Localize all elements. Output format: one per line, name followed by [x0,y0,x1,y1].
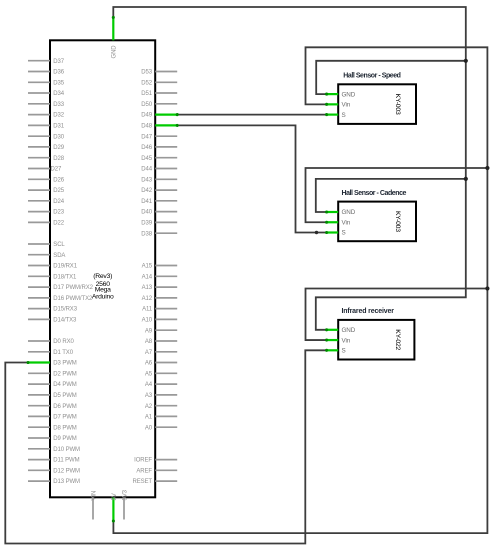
svg-text:KY-022: KY-022 [394,329,401,350]
junction 5V / cadence branch [485,166,489,170]
pin D49 (right) [141,113,177,119]
svg-text:D3 PWM: D3 PWM [53,361,77,367]
pin SDA (left) [28,253,65,259]
svg-text:D41: D41 [141,199,152,205]
svg-text:D14/TX3: D14/TX3 [53,318,77,324]
svg-text:D29: D29 [53,145,64,151]
svg-text:D46: D46 [141,145,152,151]
svg-text:Arduino: Arduino [92,294,114,301]
pin A1 (right) [145,415,177,421]
junction GND / speed branch [464,59,468,63]
pin D23 (left) [28,210,65,216]
bendpoint on D48 wire [315,231,318,234]
pin D33 (left) [28,102,65,108]
pin D30 (left) [28,134,65,140]
svg-text:3V3: 3V3 [122,489,128,500]
label KY-003 part number [394,94,401,115]
svg-text:SCL: SCL [53,242,65,248]
svg-text:VIN: VIN [91,491,97,501]
pin A0 (right) [145,425,177,431]
pin 3V3 (bottom) [122,489,128,519]
pin D47 (right) [141,134,177,140]
module Infrared receiver (KY-022) body [338,320,414,360]
svg-text:D51: D51 [141,91,152,97]
pin A4 (right) [145,382,177,388]
svg-text:S: S [342,112,346,119]
svg-text:D17 PWM/RX2: D17 PWM/RX2 [53,285,93,291]
svg-text:D42: D42 [141,188,152,194]
svg-text:D8 PWM: D8 PWM [53,425,77,431]
pin GND of Infrared receiver [325,327,356,334]
svg-text:D0 RX0: D0 RX0 [53,339,74,345]
pin D14/TX3 (left) [28,318,77,324]
svg-text:GND: GND [342,91,356,98]
wire 5V branch to Hall Sensor Cadence Vin [306,168,488,222]
svg-text:D7 PWM: D7 PWM [53,415,77,421]
svg-text:IOREF: IOREF [134,458,152,464]
svg-text:D25: D25 [53,188,64,194]
svg-text:Mega: Mega [95,287,111,294]
pin D6 PWM (left) [28,404,77,410]
label KY-003 part number [394,211,401,232]
bendpoint at D3 PWM pin end [26,361,29,364]
svg-text:D32: D32 [53,113,64,119]
pin D42 (right) [141,188,177,194]
svg-text:D1 TX0: D1 TX0 [53,350,73,356]
svg-text:A7: A7 [145,350,153,356]
junction GND / cadence branch [464,177,468,181]
pin D38 (right) [141,231,177,237]
svg-text:Vin: Vin [342,102,351,109]
label Hall Sensor - Cadence title [342,190,407,197]
svg-text:D19/RX1: D19/RX1 [53,264,77,270]
svg-text:D28: D28 [53,156,64,162]
pin A5 (right) [145,371,177,377]
svg-text:RESET: RESET [132,479,152,485]
svg-text:Vin: Vin [342,337,351,344]
pin D17 PWM/RX2 (left) [28,285,94,291]
svg-text:D37: D37 [53,59,64,65]
pin D19/RX1 (left) [28,264,78,270]
pin D1 TX0 (left) [28,350,74,356]
pin D31 (left) [28,124,65,130]
svg-text:GND: GND [342,327,356,334]
pin SCL (left) [28,242,65,248]
pin A13 (right) [142,285,178,291]
pin GND of Hall Sensor - Cadence [325,209,356,216]
svg-text:(Rev3): (Rev3) [93,273,112,280]
pin D51 (right) [141,91,177,97]
svg-text:D53: D53 [141,70,152,76]
pin D2 PWM (left) [28,371,77,377]
pin S of Hall Sensor - Speed [325,112,346,119]
svg-text:A6: A6 [145,361,153,367]
svg-text:D49: D49 [141,113,152,119]
svg-text:A4: A4 [145,382,153,388]
pin D28 (left) [28,156,65,162]
pin D53 (right) [141,70,177,76]
svg-text:D45: D45 [141,156,152,162]
wire D3 PWM to Infrared receiver S (around left and bottom) [5,350,327,543]
pin D0 RX0 (left) [28,339,74,345]
svg-text:D35: D35 [53,80,64,86]
svg-text:A12: A12 [142,296,153,302]
pin D8 PWM (left) [28,425,77,431]
pin GND of Hall Sensor - Speed [325,91,356,98]
svg-text:A9: A9 [145,328,153,334]
pin Vin of Hall Sensor - Speed [325,102,351,109]
pin D13 PWM (left) [28,479,80,485]
pin VIN (bottom) [91,491,97,520]
svg-text:A5: A5 [145,371,153,377]
svg-text:S: S [342,348,346,355]
module Hall Sensor - Cadence (KY-003) body [338,202,416,242]
pin AREF (right) [136,468,177,474]
label Hall Sensor - Speed title [343,73,400,80]
svg-text:A10: A10 [142,318,153,324]
pin D52 (right) [141,80,177,86]
svg-text:D9 PWM: D9 PWM [53,436,77,442]
pin D27 (left) [28,167,62,173]
pin D43 (right) [141,177,177,183]
pin A6 (right) [145,361,177,367]
wire GND branch to Hall Sensor Cadence GND [316,179,466,212]
pin 5V (bottom) [112,493,118,522]
bendpoint at D49 pin end [176,113,179,116]
pin D39 (right) [141,221,177,227]
svg-text:D52: D52 [141,80,152,86]
svg-text:D16 PWM/TX2: D16 PWM/TX2 [53,296,93,302]
pin D16 PWM/TX2 (left) [28,296,93,302]
wire 5V branch to Infrared receiver Vin [306,289,488,341]
svg-text:Hall Sensor - Cadence: Hall Sensor - Cadence [342,190,407,197]
svg-text:D24: D24 [53,199,64,205]
svg-text:D38: D38 [141,231,152,237]
svg-text:D15/RX3: D15/RX3 [53,307,77,313]
pin D24 (left) [28,199,65,205]
svg-text:A13: A13 [142,285,153,291]
pin D10 PWM (left) [28,447,80,453]
svg-text:D47: D47 [141,134,152,140]
wire GND net: Arduino GND pin up, across top, down right side, to IR receiver GND [113,7,466,330]
svg-text:A1: A1 [145,415,153,421]
pin A2 (right) [145,404,177,410]
pin D15/RX3 (left) [28,307,78,313]
pin A9 (right) [145,328,177,334]
svg-text:D44: D44 [141,167,152,173]
svg-text:D33: D33 [53,102,64,108]
svg-text:D31: D31 [53,124,64,130]
svg-text:KY-003: KY-003 [394,211,401,232]
svg-text:D43: D43 [141,177,152,183]
pin Vin of Infrared receiver [325,337,351,344]
svg-text:A14: A14 [142,274,153,280]
pin S of Infrared receiver [325,348,346,355]
pin D34 (left) [28,91,65,97]
pin A8 (right) [145,339,177,345]
svg-text:D27: D27 [51,167,62,173]
pin D46 (right) [141,145,177,151]
pin D25 (left) [28,188,65,194]
pin D32 (left) [28,113,65,119]
svg-text:D50: D50 [141,102,152,108]
svg-text:D22: D22 [53,221,64,227]
svg-text:5V: 5V [112,493,118,500]
svg-text:A11: A11 [142,307,153,313]
svg-text:A2: A2 [145,404,153,410]
pin D7 PWM (left) [28,415,77,421]
pin D37 (left) [28,59,65,65]
pin D45 (right) [141,156,177,162]
pin D40 (right) [141,210,177,216]
svg-text:D2 PWM: D2 PWM [53,371,77,377]
pin RESET (right) [132,479,177,485]
pin D5 PWM (left) [28,393,77,399]
wire D49 to Hall Sensor Speed S [177,114,327,116]
svg-text:A0: A0 [145,425,153,431]
svg-text:AREF: AREF [136,468,152,474]
pin D50 (right) [141,102,177,108]
svg-text:A3: A3 [145,393,153,399]
svg-text:D12 PWM: D12 PWM [53,468,80,474]
svg-text:D39: D39 [141,221,152,227]
junction 5V / IR branch [485,286,489,290]
svg-text:D26: D26 [53,177,64,183]
arduino U1 Arduino Mega 2560 (Rev3) body [50,40,155,497]
svg-text:D4 PWM: D4 PWM [53,382,77,388]
svg-text:A15: A15 [142,264,153,270]
svg-text:D6 PWM: D6 PWM [53,404,77,410]
svg-text:D40: D40 [141,210,152,216]
pin A15 (right) [142,264,178,270]
pin GND (top) [112,16,118,59]
pin D44 (right) [141,167,177,173]
svg-text:D10 PWM: D10 PWM [53,447,80,453]
pin IOREF (right) [134,458,177,464]
bendpoint at D48 pin end [176,124,179,127]
svg-text:D11 PWM: D11 PWM [53,458,79,464]
svg-text:D23: D23 [53,210,64,216]
pin D4 PWM (left) [28,382,77,388]
svg-text:Infrared receiver: Infrared receiver [342,308,395,315]
svg-text:D48: D48 [141,124,152,130]
pin D41 (right) [141,199,177,205]
svg-text:SDA: SDA [53,253,65,259]
svg-text:A8: A8 [145,339,153,345]
module Hall Sensor - Speed (KY-003) body [338,84,416,124]
pin A12 (right) [142,296,178,302]
pin Vin of Hall Sensor - Cadence [325,219,351,226]
pin D18/TX1 (left) [28,274,77,280]
svg-text:D13 PWM: D13 PWM [53,479,80,485]
pin A11 (right) [142,307,177,313]
pin D12 PWM (left) [28,468,80,474]
pin D36 (left) [28,70,65,76]
pin A7 (right) [145,350,177,356]
svg-text:S: S [342,230,346,237]
pin A10 (right) [142,318,178,324]
wire GND branch to Hall Sensor Speed GND [316,61,466,94]
pin D22 (left) [28,221,65,227]
svg-text:D18/TX1: D18/TX1 [53,274,77,280]
pin S of Hall Sensor - Cadence [325,230,346,237]
svg-text:D34: D34 [53,91,64,97]
pin A14 (right) [142,274,178,280]
wire D48 to Hall Sensor Cadence S [177,125,327,232]
pin D48 (right) [141,124,177,130]
svg-text:D5 PWM: D5 PWM [53,393,77,399]
label Infrared receiver title [342,308,395,315]
svg-text:GND: GND [342,209,356,216]
svg-text:KY-003: KY-003 [394,94,401,115]
wire 5V net: Arduino 5V pin down, across bottom, up far right, across top to Hall Sensor Speed Vin [113,47,487,533]
pin A3 (right) [145,393,177,399]
svg-text:Hall Sensor - Speed: Hall Sensor - Speed [343,73,400,80]
pin D9 PWM (left) [28,436,77,442]
pin D29 (left) [28,145,65,151]
label KY-022 part number [394,329,401,350]
pin D35 (left) [28,80,65,86]
pin D11 PWM (left) [28,458,80,464]
svg-text:D36: D36 [53,70,64,76]
svg-text:D30: D30 [53,134,64,140]
pin D3 PWM (left) [28,361,77,367]
label Arduino Mega 2560 (Rev3) [92,273,114,300]
svg-text:Vin: Vin [342,219,351,226]
svg-text:GND: GND [112,45,118,59]
pin D26 (left) [28,177,65,183]
